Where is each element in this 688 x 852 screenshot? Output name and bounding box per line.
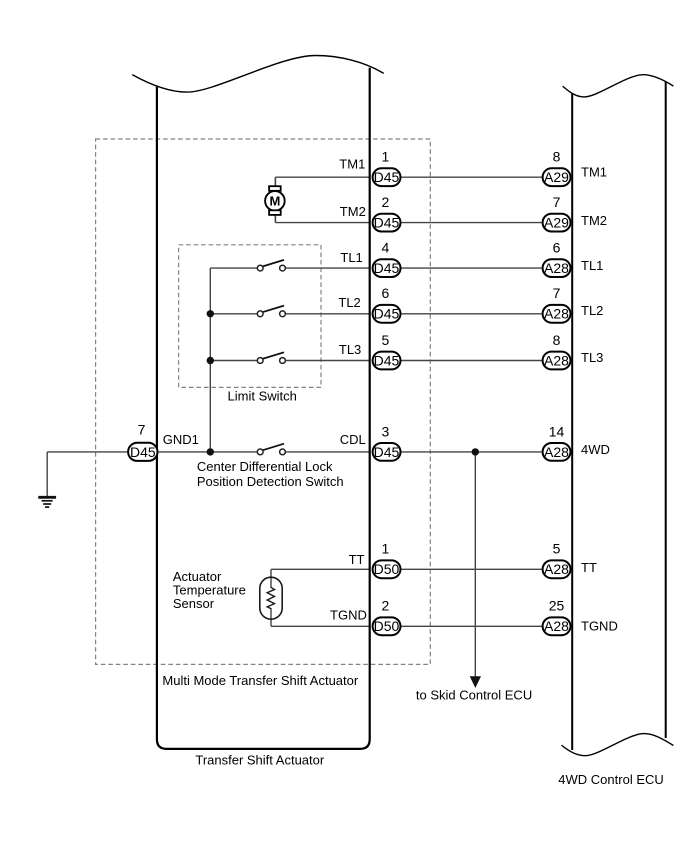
svg-text:Center Differential Lock: Center Differential Lock [197, 459, 333, 474]
svg-text:A28: A28 [544, 618, 569, 634]
svg-text:14: 14 [549, 423, 565, 439]
svg-text:7: 7 [553, 194, 561, 210]
svg-text:CDL: CDL [340, 432, 366, 447]
svg-text:A28: A28 [544, 444, 569, 460]
svg-text:TL1: TL1 [340, 250, 362, 265]
svg-text:6: 6 [382, 285, 390, 301]
svg-text:Limit Switch: Limit Switch [228, 389, 297, 404]
svg-text:3: 3 [382, 423, 390, 439]
svg-text:TGND: TGND [330, 608, 367, 623]
svg-text:A28: A28 [544, 306, 569, 322]
svg-text:TL2: TL2 [581, 303, 603, 318]
svg-text:Multi Mode Transfer Shift Actu: Multi Mode Transfer Shift Actuator [162, 673, 358, 688]
svg-text:TL2: TL2 [338, 295, 360, 310]
svg-text:8: 8 [553, 332, 561, 348]
svg-text:D45: D45 [130, 444, 156, 460]
svg-text:4: 4 [382, 240, 390, 256]
svg-text:TM1: TM1 [581, 165, 607, 180]
svg-text:TL1: TL1 [581, 258, 603, 273]
svg-text:1: 1 [382, 541, 390, 557]
svg-text:TT: TT [581, 560, 597, 575]
svg-text:7: 7 [138, 421, 146, 437]
svg-text:D45: D45 [374, 444, 400, 460]
svg-text:5: 5 [553, 541, 561, 557]
svg-text:TM1: TM1 [339, 157, 365, 172]
svg-text:A29: A29 [544, 215, 569, 231]
svg-text:Sensor: Sensor [173, 596, 215, 611]
svg-text:D45: D45 [374, 352, 400, 368]
svg-text:TM2: TM2 [340, 204, 366, 219]
svg-text:A28: A28 [544, 260, 569, 276]
svg-text:TL3: TL3 [581, 350, 603, 365]
svg-text:D45: D45 [374, 215, 400, 231]
svg-text:8: 8 [553, 149, 561, 165]
svg-text:A28: A28 [544, 352, 569, 368]
svg-text:TL3: TL3 [339, 342, 361, 357]
svg-text:D50: D50 [374, 561, 400, 577]
svg-text:D45: D45 [374, 306, 400, 322]
svg-text:2: 2 [382, 598, 390, 614]
svg-text:A28: A28 [544, 561, 569, 577]
svg-text:D50: D50 [374, 618, 400, 634]
svg-text:GND1: GND1 [163, 432, 199, 447]
svg-text:1: 1 [382, 149, 390, 165]
svg-text:D45: D45 [374, 260, 400, 276]
svg-text:4WD Control ECU: 4WD Control ECU [558, 772, 663, 787]
svg-text:Position Detection Switch: Position Detection Switch [197, 474, 344, 489]
svg-text:7: 7 [553, 285, 561, 301]
svg-text:A29: A29 [544, 169, 569, 185]
svg-text:2: 2 [382, 194, 390, 210]
svg-text:Transfer Shift Actuator: Transfer Shift Actuator [195, 752, 325, 767]
svg-text:M: M [269, 194, 280, 209]
svg-text:TGND: TGND [581, 618, 618, 633]
svg-text:D45: D45 [374, 169, 400, 185]
svg-text:25: 25 [549, 598, 565, 614]
svg-text:4WD: 4WD [581, 442, 610, 457]
svg-text:5: 5 [382, 332, 390, 348]
svg-text:TT: TT [349, 552, 365, 567]
svg-text:6: 6 [553, 240, 561, 256]
svg-text:TM2: TM2 [581, 213, 607, 228]
svg-text:to Skid Control ECU: to Skid Control ECU [416, 688, 532, 703]
